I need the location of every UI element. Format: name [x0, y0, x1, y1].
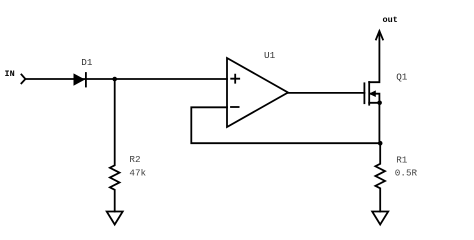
svg-text:out: out: [383, 15, 398, 25]
svg-text:IN: IN: [5, 69, 15, 79]
svg-text:R1: R1: [396, 154, 408, 165]
svg-text:47k: 47k: [129, 167, 146, 178]
svg-text:U1: U1: [264, 50, 276, 61]
svg-text:Q1: Q1: [396, 71, 408, 82]
svg-text:R2: R2: [129, 154, 140, 165]
svg-text:D1: D1: [81, 57, 93, 68]
svg-text:0.5R: 0.5R: [395, 167, 418, 178]
